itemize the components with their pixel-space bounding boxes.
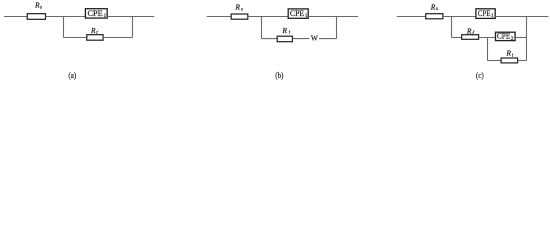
wire left lead (a) [4, 16, 28, 18]
svg-text:s: s [40, 4, 42, 10]
svg-text:R: R [430, 2, 436, 11]
svg-text:R: R [234, 3, 240, 12]
node right junction vertical (b) [336, 17, 338, 39]
wire W to right junction (b) [319, 38, 336, 40]
wire lower branch right (a) [103, 37, 132, 39]
node left junction vertical (c) [451, 17, 453, 38]
wire CPE1 to right vertical (c) [495, 16, 526, 18]
wire left lead (c) [397, 16, 426, 18]
svg-text:s: s [241, 7, 243, 13]
resistor Rt (a) [87, 26, 103, 40]
wire Rs to CPE1 (a) [46, 16, 86, 18]
wire bottom branch left (c) [488, 60, 502, 62]
svg-text:W: W [311, 33, 318, 42]
wire right lead (b) [337, 16, 359, 18]
wire Rs to CPE1 (c) [443, 16, 476, 18]
svg-text:CPE: CPE [478, 9, 491, 18]
wire middle branch left (c) [452, 37, 462, 39]
svg-text:R: R [281, 26, 287, 35]
svg-text:R: R [505, 48, 511, 57]
capacitor CPE1 (b) [288, 9, 308, 19]
resistor Rt (b) [277, 26, 292, 42]
svg-text:CPE: CPE [88, 9, 103, 18]
wire left lead (b) [207, 16, 231, 18]
svg-text:CPE: CPE [290, 9, 304, 18]
wire CPE1 to right junction (a) [107, 16, 132, 18]
resistor Rt (c) [501, 48, 517, 63]
wire right lead (a) [133, 16, 155, 18]
svg-text:R: R [466, 26, 472, 35]
wire bottom branch right (c) [518, 60, 527, 62]
svg-text:(c): (c) [476, 71, 484, 80]
wire right lead (c) [527, 16, 549, 18]
svg-text:2: 2 [511, 36, 514, 42]
resistor Rs (a) [27, 1, 45, 20]
node left junction vertical (a) [63, 17, 65, 38]
wire Rf to CPE2 (c) [479, 37, 496, 39]
resistor Rf (c) [462, 26, 479, 39]
svg-text:CPE: CPE [497, 32, 511, 41]
capacitor CPE1 (a) [85, 9, 107, 19]
svg-text:R: R [90, 26, 96, 35]
svg-text:(b): (b) [275, 71, 283, 80]
wire lower branch left (a) [64, 37, 87, 39]
node right junction vertical (c) [526, 17, 528, 61]
svg-text:(a): (a) [68, 71, 76, 80]
resistor Rs (b) [231, 3, 248, 20]
node left junction vertical (b) [261, 17, 263, 39]
wire Rs to CPE1 (b) [248, 16, 288, 18]
svg-text:s: s [436, 6, 438, 12]
node right junction vertical (a) [132, 17, 134, 38]
resistor Rs (c) [426, 2, 443, 18]
wire lower branch left (b) [262, 38, 278, 40]
node inner left junction vertical (c) [487, 38, 489, 61]
capacitor CPE2 (c) [496, 32, 516, 42]
wire Rt to W (b) [292, 38, 309, 40]
wire CPE2 to right vertical (c) [515, 37, 526, 39]
wire CPE1 to right junction (b) [308, 16, 336, 18]
capacitor CPE1 (c) [476, 9, 495, 19]
